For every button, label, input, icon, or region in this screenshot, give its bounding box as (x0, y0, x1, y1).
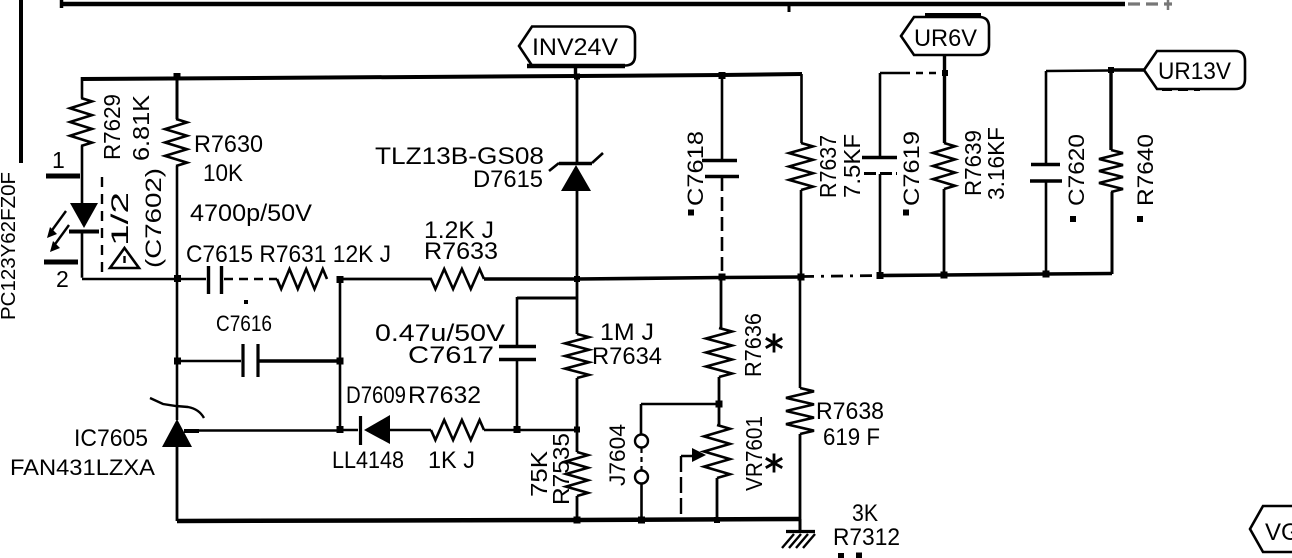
capacitor C7620 (1030, 71, 1062, 274)
dot marker for C7618 (688, 210, 694, 216)
label VR7601 (rotated) (741, 416, 767, 491)
wire left branch from top rail to R7629 (81, 77, 84, 98)
svg-text:C7615 R7631 12K J: C7615 R7631 12K J (186, 241, 391, 268)
wire R7637 to middle rail (800, 190, 803, 277)
label 6.81K (rotated) (128, 94, 154, 161)
resistor R7630 (165, 119, 187, 166)
wire D7615 anode to middle rail (576, 190, 579, 280)
svg-text:IC7605: IC7605 (74, 425, 148, 452)
dashed outline of optocoupler half (101, 177, 103, 278)
svg-text:R7636: R7636 (740, 313, 766, 377)
svg-text:3K: 3K (852, 500, 878, 527)
label C7618 (rotated) (683, 131, 708, 206)
svg-text:VG: VG (1265, 519, 1292, 546)
svg-text:UR6V: UR6V (914, 25, 977, 52)
junction middle rail / C7619 (877, 272, 884, 279)
label 1K J (428, 447, 475, 474)
stray scan dot near C7615 (244, 300, 248, 304)
capacitor C7615 (177, 266, 277, 294)
wire IC7605 cathode to D7609 node (197, 429, 340, 432)
wire top rail corner to R7637 (800, 74, 803, 143)
label 619 F (823, 424, 880, 451)
junction middle rail / C7620 (1043, 271, 1050, 278)
label FAN431LZXA (10, 455, 155, 480)
label R7312 (833, 524, 900, 551)
dot marker for C7620 (1070, 216, 1076, 222)
label J7604 (rotated) (605, 424, 630, 486)
net flag INV24V (519, 27, 635, 67)
svg-text:INV24V: INV24V (532, 34, 618, 61)
junction node C7615-R7631 branch corner (337, 276, 344, 283)
wire top border of adjacent block (60, 0, 1172, 12)
reference squiggle of IC7605 (150, 398, 204, 418)
wire UR13V net (1110, 68, 1146, 71)
svg-text:C7618: C7618 (683, 131, 708, 206)
label 1/2 (rotated) (107, 192, 134, 246)
junction C7616 left / vertical (174, 358, 181, 365)
svg-text:R7640: R7640 (1133, 134, 1158, 206)
wire middle rail to R7638 (799, 277, 802, 388)
shunt regulator IC7605 FAN431LZXA (162, 419, 199, 447)
label IC7605 (74, 425, 148, 452)
resistor R7629 (70, 98, 92, 146)
wire R7638 to bottom rail end (799, 434, 802, 520)
svg-text:1K J: 1K J (428, 447, 475, 474)
wire R7630 to middle rail (176, 166, 179, 279)
wire R7639 to middle rail (943, 189, 946, 275)
svg-text:R7633: R7633 (424, 238, 498, 265)
dot marker for R7640 (1137, 216, 1143, 222)
label PC123Y62FZ0F (rotated) (0, 172, 20, 320)
resistor R7535 (566, 452, 588, 496)
junction bottom rail / VR7601 (714, 517, 720, 523)
LED of optocoupler IC7602 (PC123Y62FZ0F) (69, 203, 99, 232)
label 0.47u/50V (375, 320, 505, 347)
svg-text:PC123Y62FZ0F: PC123Y62FZ0F (0, 172, 20, 320)
junction C7617 / R7632 wire (514, 426, 521, 433)
label R7630 (194, 131, 263, 158)
svg-text:R7632: R7632 (408, 382, 481, 409)
potentiometer VR7601 (704, 425, 730, 478)
label C7616 (216, 311, 272, 336)
labels C7615 R7631 12K J (186, 241, 391, 268)
svg-text:J7604: J7604 (605, 424, 630, 486)
label R7632 (408, 382, 481, 409)
label R7638 (816, 398, 884, 425)
diode D7609 LL4148 (361, 415, 432, 445)
wire UR6V stem (943, 55, 946, 143)
junction top rail / R7630 (174, 73, 181, 80)
junction middle rail / C7618-R7636 (719, 274, 726, 281)
junction J7604 wire / R7636-VR7601 (716, 401, 723, 408)
svg-text:10K: 10K (203, 160, 243, 187)
warning triangle symbol (110, 248, 139, 268)
label R7629 (rotated) (99, 94, 125, 160)
label LL4148 (332, 447, 404, 474)
label TLZ13B-GS08 (375, 143, 544, 170)
junction bottom rail / J7604 (638, 517, 645, 524)
net flag UR6V (901, 15, 989, 55)
wire bottom rail (y~520) (177, 519, 800, 521)
wire top rail to R7630 (176, 76, 179, 119)
resistor R7631 (277, 269, 327, 289)
wire middle rail to C7617 branch (517, 297, 577, 345)
junction D7609 anode wire (337, 426, 344, 433)
svg-text:4700p/50V: 4700p/50V (190, 200, 312, 227)
capacitor C7617 (499, 347, 536, 431)
junction R7632 wire / main vertical (574, 427, 580, 433)
wire C7619 top corner (880, 72, 944, 75)
label pin 1 (52, 147, 65, 173)
junction UR13V wire / R7640 (1108, 67, 1114, 73)
junction top rail / INV24V stem (574, 74, 580, 80)
resistor R7640 (1099, 150, 1123, 192)
wire VR7601 to bottom rail (716, 478, 719, 521)
wire R7640 to middle rail end (1111, 192, 1114, 274)
wire IC7605 to bottom rail (176, 447, 179, 521)
svg-text:3.16KF: 3.16KF (983, 127, 1009, 200)
wire R7636 to VR7601 (718, 377, 721, 425)
wire R7632 to C7617 node (484, 429, 577, 432)
wire LED cathode to pin 2 corner (81, 231, 84, 278)
junction bottom rail / R7535 (574, 517, 581, 524)
label R7535 (rotated) (548, 433, 574, 505)
capacitor C7616 (177, 344, 340, 377)
label C7617 (408, 342, 494, 369)
svg-text:VR7601: VR7601 (741, 416, 767, 491)
junction middle rail / R7639 (941, 272, 948, 279)
wire R7640 top lead (1109, 70, 1112, 150)
wire middle rail to R7634 (576, 279, 579, 334)
svg-text:D7609: D7609 (346, 382, 406, 409)
svg-text:1/2: 1/2 (107, 192, 134, 246)
junction middle rail / main vertical (574, 276, 580, 282)
svg-text:C7619: C7619 (899, 131, 924, 206)
pin 1 tick of optocoupler (46, 174, 80, 179)
svg-text:D7615: D7615 (473, 166, 543, 193)
junction middle rail / R7637-R7638 (798, 274, 805, 281)
label 3K (852, 500, 878, 527)
svg-text:C7620: C7620 (1064, 134, 1089, 206)
junction C7616 right / vertical (337, 358, 344, 365)
capacitor C7619 (862, 73, 897, 276)
resistor R7637 (789, 143, 813, 190)
svg-text:C7617: C7617 (408, 342, 494, 369)
svg-text:R7630: R7630 (194, 131, 263, 158)
svg-text:UR13V: UR13V (1158, 58, 1231, 85)
svg-text:(C7602): (C7602) (141, 168, 166, 268)
resistor R7638 (786, 388, 814, 434)
svg-text:2: 2 (56, 266, 69, 292)
wire left border of adjacent block (19, 0, 23, 163)
label 4700p/50V (190, 200, 312, 227)
label D7609 (346, 382, 406, 409)
wire R7535 to bottom rail (576, 496, 579, 521)
svg-text:C7616: C7616 (216, 311, 272, 336)
label R7640 (rotated) (1133, 134, 1158, 206)
wire R7629 to opto pin 1 (81, 146, 84, 204)
wire top rail to D7615 cathode (576, 76, 579, 163)
label 3.16KF (rotated) (983, 127, 1009, 200)
label R7639 (rotated) (960, 130, 986, 196)
resistor R7639 (933, 143, 955, 189)
label R7637 (rotated) (815, 135, 841, 198)
svg-text:LL4148: LL4148 (332, 447, 404, 474)
wire R7634 to junction (576, 378, 579, 452)
svg-text:619 F: 619 F (823, 424, 880, 451)
junction C7619 wire / stem (942, 70, 948, 76)
wire C7620 top corner (1046, 69, 1110, 72)
svg-text:1: 1 (52, 147, 65, 173)
wire junction to IC7605 (176, 279, 179, 420)
svg-text:R7312: R7312 (833, 524, 900, 551)
svg-text:R7629: R7629 (99, 94, 125, 160)
label C7619 (rotated) (899, 131, 924, 206)
label (C7602) (rotated) (141, 168, 166, 268)
label 75K (rotated) (526, 450, 552, 497)
zener diode D7615 TLZ13B-GS08 (549, 153, 603, 191)
wire top rail INV24V net (y~76) (82, 74, 802, 79)
wire J7604 top (641, 404, 719, 434)
svg-text:R7637: R7637 (815, 135, 841, 198)
asterisk for R7636 (766, 334, 782, 353)
resistor R7632 (431, 420, 484, 440)
resistor R7636 (706, 328, 732, 377)
wire middle rail to R7636 (720, 277, 723, 328)
label 1M J (600, 319, 654, 346)
svg-text:R7634: R7634 (592, 343, 662, 370)
light emission arrows of optocoupler (47, 211, 69, 252)
svg-text:1M J: 1M J (600, 319, 654, 346)
dot marker for C7619 (903, 210, 909, 216)
net flag UR13V (1144, 51, 1245, 90)
wire D7609 wire from x340 (340, 429, 358, 432)
asterisk for VR7601 (766, 454, 782, 473)
label 7.5KF (rotated) (839, 134, 865, 198)
pin 2 tick of optocoupler (44, 260, 78, 265)
svg-text:R7638: R7638 (816, 398, 884, 425)
svg-text:FAN431LZXA: FAN431LZXA (10, 455, 155, 480)
label R7636 (rotated) (740, 313, 766, 377)
partial marks below R7312 (838, 553, 862, 558)
resistor R7633 (431, 269, 484, 289)
jumper J7604 (635, 435, 648, 522)
svg-text:6.81K: 6.81K (128, 94, 154, 161)
junction top rail / C7618 (719, 72, 726, 79)
label 1.2K J (424, 217, 494, 244)
label 10K (203, 160, 243, 187)
label C7620 (rotated) (1064, 134, 1089, 206)
svg-text:R7535: R7535 (548, 433, 574, 505)
label D7615 (473, 166, 543, 193)
wire vertical x340 (R7631 corner to D7609 wire) (339, 279, 342, 430)
net flag VG (partial) (1250, 506, 1292, 552)
wire middle rail (y~278) (82, 274, 1112, 280)
label R7633 (424, 238, 498, 265)
label R7634 (592, 343, 662, 370)
junction middle rail / opto pin2 / C7615 (174, 275, 181, 282)
ground symbol (782, 519, 815, 548)
wiper arrow of VR7601 (681, 448, 706, 519)
resistor R7634 (565, 334, 589, 378)
svg-text:7.5KF: 7.5KF (839, 134, 865, 198)
capacitor C7618 (702, 75, 739, 277)
label pin 2 (56, 266, 69, 292)
wire INV24V stem (574, 66, 577, 77)
